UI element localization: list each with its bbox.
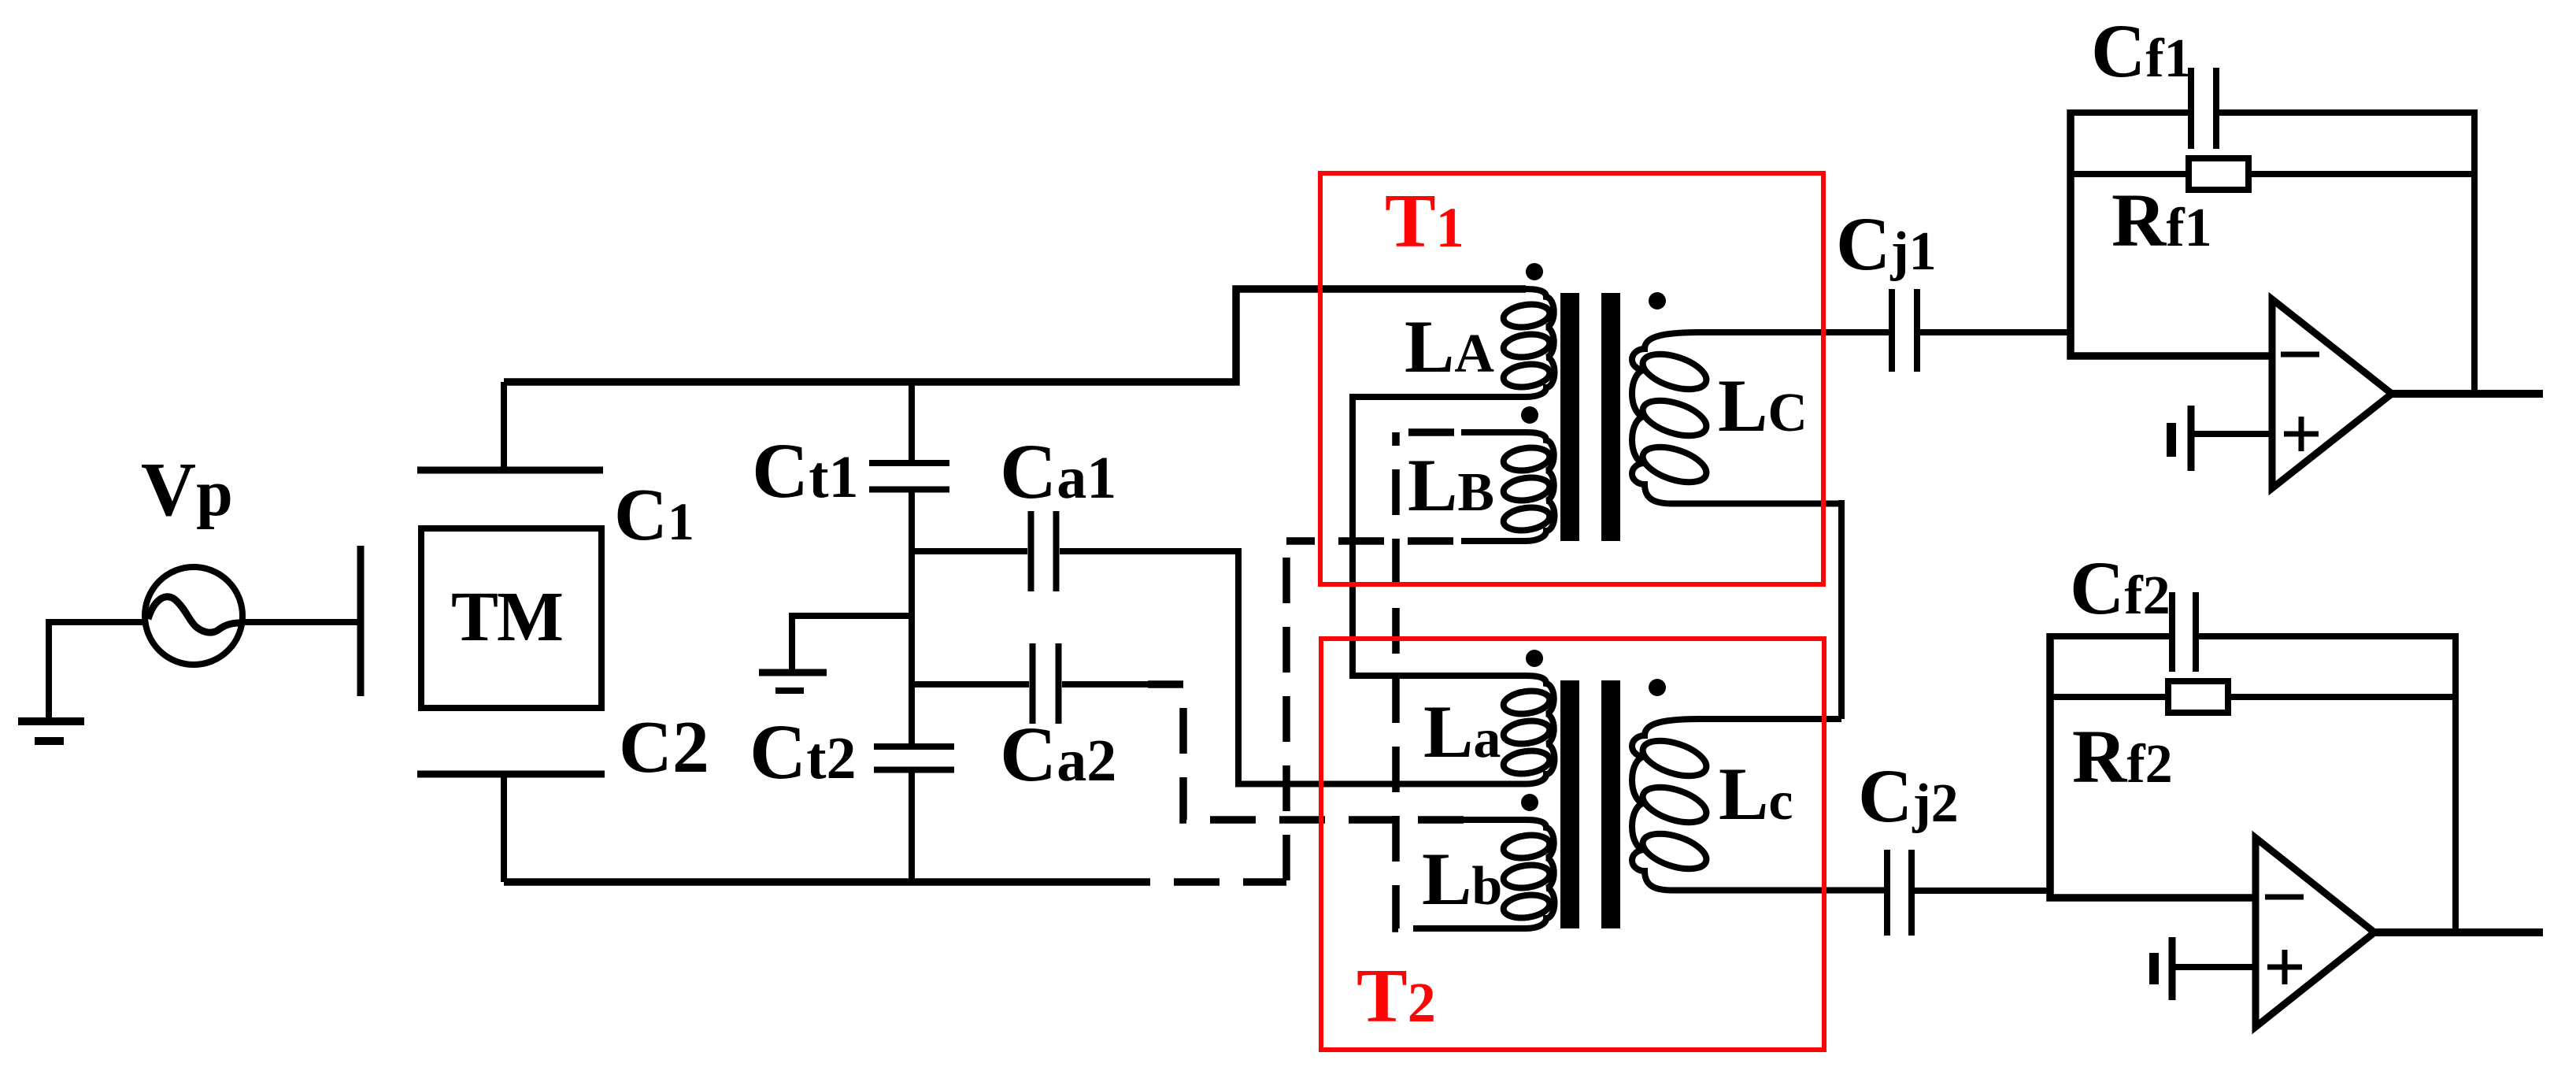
source Vp circle xyxy=(145,567,242,665)
capacitor Cf2 xyxy=(2172,592,2196,672)
wire C1 to top rail xyxy=(501,382,507,470)
wire Vp to electrode xyxy=(242,619,361,625)
dot LC xyxy=(1649,292,1666,309)
op-amp U1 xyxy=(2272,299,2392,488)
wire Ca2 left lead xyxy=(912,681,1029,687)
inductor LB winding xyxy=(1461,432,1555,541)
inductor LA winding xyxy=(1353,289,1555,397)
transformer T2 box xyxy=(1321,639,1824,1050)
svg-text:C2: C2 xyxy=(619,706,709,788)
capacitor Cj1 xyxy=(1892,289,1917,372)
wire LA to La riser xyxy=(1353,394,1466,676)
wire Lc bottom to Cj2 xyxy=(1672,888,1887,894)
capacitor Ct2 xyxy=(874,747,954,770)
wire Ct chain middle xyxy=(909,493,915,744)
wire bottom rail xyxy=(504,878,1150,886)
capacitor C2 plate xyxy=(417,771,605,778)
capacitor C1 plate xyxy=(417,467,603,474)
op-amp U2 minus sign xyxy=(2265,895,2304,900)
feedback box 2 left vertical + minus input xyxy=(2050,633,2256,898)
dot LB xyxy=(1521,406,1538,424)
capacitor Cj2 xyxy=(1887,850,1912,936)
wire Ct chain bottom xyxy=(909,773,915,883)
dot Lb xyxy=(1521,794,1538,811)
wire LB bottom dashed lead xyxy=(1286,537,1461,545)
ground at Vp short bar xyxy=(35,737,64,745)
dot Lc xyxy=(1649,679,1666,696)
inductor Lb winding xyxy=(1413,820,1555,928)
wire Vp left xyxy=(49,619,145,625)
wire bottom rail dashed extension xyxy=(1150,878,1286,886)
resistor Rf2 xyxy=(2168,681,2228,713)
wire opamp1 plus input xyxy=(2191,431,2272,437)
capacitor Ca1 xyxy=(1031,511,1057,591)
core T2 xyxy=(1560,680,1579,928)
wire opamp1 output xyxy=(2392,390,2543,398)
resistor Rf1 xyxy=(2189,158,2248,190)
wire LB-Lb dashed riser xyxy=(1396,432,1413,928)
wire Ct chain top xyxy=(909,382,915,460)
wire Ca1 to La (node feed) xyxy=(1060,551,1526,784)
wire ground drop xyxy=(46,619,52,717)
op-amp U2 plus sign xyxy=(2267,950,2302,984)
op-amp U1 minus sign xyxy=(2281,352,2319,358)
feedback box 1 left vertical + minus input xyxy=(2071,109,2272,356)
wire Cj2 to opamp2 xyxy=(1913,888,2050,894)
wire LB top dashed lead xyxy=(1396,428,1461,436)
wire LC to Lc riser xyxy=(1838,500,1845,719)
wire Ca1 left lead xyxy=(912,548,1027,554)
feedback box 2 top rail xyxy=(2050,636,2456,932)
mid ground short bar xyxy=(775,687,804,694)
TM box xyxy=(421,528,601,708)
wire Ca2 to Lb dashed xyxy=(1148,684,1466,820)
svg-text:Vp: Vp xyxy=(141,447,233,532)
dot LA xyxy=(1526,263,1543,280)
core T1 xyxy=(1560,293,1579,541)
dot La xyxy=(1526,650,1543,667)
capacitor Ct1 xyxy=(869,463,949,490)
feedback box 1 top rail xyxy=(2071,113,2474,394)
inductor LC winding xyxy=(1632,332,1841,504)
battery opamp2 long bar xyxy=(2169,937,2176,1000)
mid ground long bar xyxy=(759,669,827,676)
battery opamp1 short bar xyxy=(2167,423,2176,457)
inductor La winding xyxy=(1466,676,1555,784)
wire C2 to bottom rail xyxy=(501,774,507,882)
op-amp U2 xyxy=(2256,838,2374,1027)
wire opamp2 plus input xyxy=(2172,964,2256,970)
wire LB return dashed riser xyxy=(1282,541,1290,882)
transformer T1 box xyxy=(1320,173,1823,584)
capacitor Ca2 xyxy=(1033,643,1059,724)
sine wave inside Vp xyxy=(148,597,240,632)
wire Lc top feed xyxy=(1699,716,1841,722)
ground at Vp long bar xyxy=(18,717,84,725)
wire Cj1 to opamp1 xyxy=(1919,329,2071,335)
feedback box 1 Rf rail xyxy=(2071,171,2474,177)
battery opamp1 long bar xyxy=(2188,406,2195,471)
wire top rail xyxy=(504,289,1526,382)
wire mid-ground branch xyxy=(792,616,912,669)
op-amp U1 plus sign xyxy=(2284,417,2319,451)
battery opamp2 short bar xyxy=(2149,953,2159,984)
electrode plate xyxy=(357,546,365,696)
wire LC top to Cj1 xyxy=(1699,329,1892,335)
svg-text:TM: TM xyxy=(451,578,562,656)
capacitor Cf1 xyxy=(2191,68,2216,149)
wire Ca2 right lead solid xyxy=(1062,681,1148,687)
wire opamp2 output xyxy=(2374,928,2543,936)
inductor Lc winding xyxy=(1632,719,1887,891)
feedback box 2 Rf rail xyxy=(2050,694,2456,700)
